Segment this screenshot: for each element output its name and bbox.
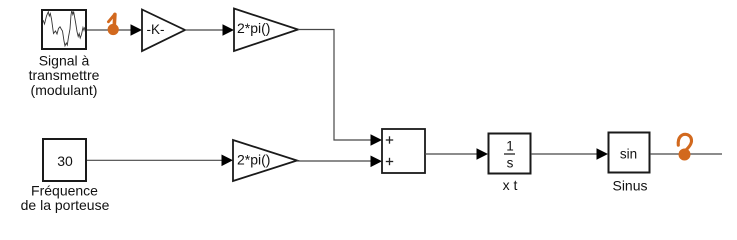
label Frequence de la porteuse [21,183,110,214]
svg-text:s: s [507,156,514,171]
svg-text:-K-: -K- [147,22,165,37]
wire sum to integrator [425,153,479,155]
arrowhead into gain2 [223,24,235,36]
svg-text:2*pi(): 2*pi() [237,152,270,168]
svg-text:x t: x t [503,177,518,193]
integrator block 1/s [489,134,531,174]
marker 1 (orange) [108,14,119,35]
arrowhead into sum input 1 [371,134,383,146]
trigonometric block sin [609,133,650,173]
arrowhead into sin [597,148,609,160]
gain U3 2*pi() bottom [233,140,297,181]
label Signal a transmettre (modulant) [29,53,100,99]
gain U1 -K- [142,10,185,52]
marker 2 (orange) [678,134,691,160]
svg-text:sin: sin [620,147,637,162]
output wire from sin [650,153,722,155]
wire gain2 to sum input 1 (right, down, right) [298,30,373,141]
svg-text:2*pi(): 2*pi() [237,20,270,36]
sum block [382,129,425,173]
arrowhead into integrator [477,148,489,160]
constant block 30 [43,139,86,181]
source block Signal a transmettre [42,10,86,49]
wire gain3 to sum input 2 [297,160,373,162]
arrowhead into sum input 2 [371,156,383,168]
arrowhead into gain1 [131,24,143,36]
svg-text:transmettre: transmettre [29,67,100,83]
svg-text:30: 30 [57,153,73,169]
wire source to gain1 [87,29,133,31]
svg-text:de la porteuse: de la porteuse [21,197,110,213]
svg-text:Sinus: Sinus [612,178,647,194]
gain U2 2*pi() top [234,9,298,52]
wire gain1 to gain2 [185,29,225,31]
wire constant to gain3 [87,159,224,161]
arrowhead into gain3 [222,155,234,167]
svg-text:(modulant): (modulant) [31,82,98,98]
wire integrator to sin [531,153,599,155]
svg-text:1: 1 [506,139,514,154]
